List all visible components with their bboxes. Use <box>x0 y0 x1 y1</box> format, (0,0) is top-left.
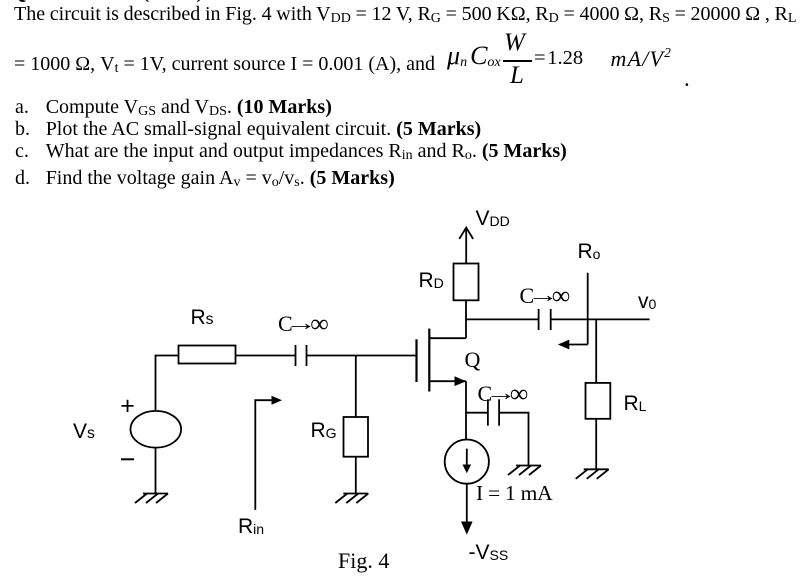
label C3 value <box>478 382 529 405</box>
capacitor C3 plates (bypass) <box>487 399 489 425</box>
label Rs <box>191 307 214 328</box>
cropped heading remnant line <box>0 0 806 5</box>
voltage source Vs <box>131 411 182 448</box>
Ro probe line vertical <box>587 273 589 345</box>
paragraph line 2 <box>14 54 435 74</box>
wire RL to ground <box>595 419 597 470</box>
list item c <box>15 141 29 161</box>
capacitor C1 plates <box>295 345 297 366</box>
wire source to C3 <box>466 412 488 414</box>
label I value <box>476 483 552 505</box>
ground below Vs <box>135 494 168 504</box>
label RD <box>419 270 444 291</box>
current source I <box>445 440 489 484</box>
-VSS arrowhead <box>461 522 473 535</box>
label -VSS <box>469 542 509 563</box>
transistor Q channel bar <box>428 329 430 392</box>
Ro probe arrow horizontal <box>560 344 588 346</box>
label VDD <box>476 208 510 229</box>
wire RD to VDD arrow <box>465 228 467 264</box>
wire source horizontal with arrow <box>429 380 466 382</box>
label plus <box>120 394 135 419</box>
wire RG to ground <box>355 457 357 494</box>
wire C1 to gate <box>307 355 417 357</box>
wire Vs top vertical <box>155 356 157 412</box>
label Vs <box>73 421 95 442</box>
ground below RG <box>335 494 368 504</box>
wire source vertical <box>465 381 467 439</box>
resistor RD <box>454 264 479 301</box>
resistor RL <box>586 383 611 419</box>
node RG junction vertical wire <box>355 356 357 418</box>
wire Vs to Rs <box>155 355 179 357</box>
ground below RL <box>576 469 609 479</box>
transistor Q gate bar <box>415 339 417 382</box>
resistor Rs <box>179 346 236 364</box>
caption Fig. 4 <box>338 550 389 572</box>
Rin probe arrow <box>255 400 273 510</box>
minus sign of Vs <box>121 458 134 460</box>
label v0 <box>638 291 656 312</box>
wire drain horizontal <box>429 337 466 339</box>
wire Rs to C1 <box>236 355 296 357</box>
label RL <box>624 393 647 414</box>
current source arrow <box>466 449 468 466</box>
list item a <box>15 97 29 117</box>
wire C3 to ground <box>499 413 528 466</box>
resistor RG <box>344 417 369 457</box>
paragraph line 1 <box>14 4 796 24</box>
wire RL top <box>595 319 597 383</box>
ground below C3 <box>508 466 541 476</box>
label C2 value <box>520 284 571 307</box>
label Rin <box>238 516 264 537</box>
equation mu_n C_ox W/L = 1.28 mA/V^2 <box>447 43 501 69</box>
VDD arrowhead open <box>459 228 473 239</box>
capacitor C2 plates (output coupling) <box>538 309 540 330</box>
wire drain vertical <box>465 300 467 338</box>
label Ro <box>578 241 601 262</box>
wire to -VSS <box>466 484 468 522</box>
list item b <box>15 119 30 139</box>
wire Vs to ground <box>155 448 157 494</box>
label Q <box>465 349 481 371</box>
label RG <box>311 420 337 441</box>
label C1 value <box>278 312 329 335</box>
list item d <box>15 168 30 188</box>
wire C2 to v0 <box>551 318 650 320</box>
wire output node horizontal <box>466 318 539 320</box>
